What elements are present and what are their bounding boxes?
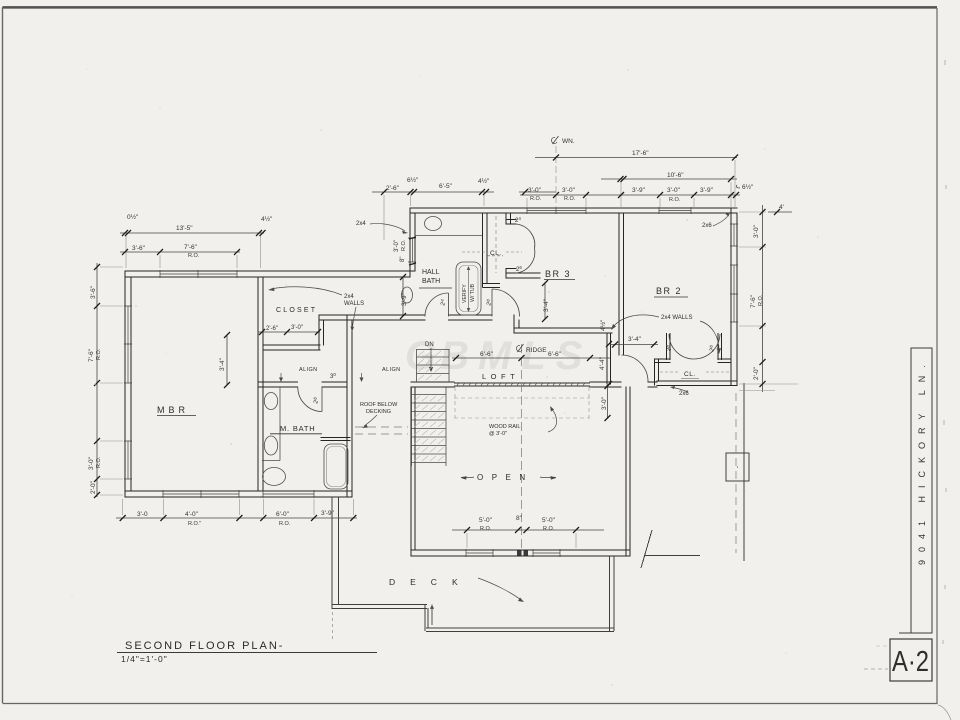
svg-text:R.O.: R.O. <box>279 521 291 527</box>
svg-text:4½": 4½" <box>478 177 490 185</box>
svg-text:3'-4": 3'-4" <box>628 336 642 343</box>
svg-text:ROOF BELOW: ROOF BELOW <box>360 402 398 408</box>
svg-text:9041 HICKORY LN.: 9041 HICKORY LN. <box>917 357 927 565</box>
svg-text:R.O.: R.O. <box>669 197 681 203</box>
svg-text:R.O.: R.O. <box>401 239 407 251</box>
svg-text:R.O.: R.O. <box>188 253 200 259</box>
svg-text:5'-0": 5'-0" <box>542 517 556 524</box>
svg-text:VERIFY: VERIFY <box>462 284 468 303</box>
svg-text:3'-0": 3'-0" <box>667 187 681 194</box>
svg-text:26: 26 <box>484 298 494 307</box>
svg-text:CL.: CL. <box>684 371 696 378</box>
svg-text:R.O.: R.O. <box>758 294 764 306</box>
svg-text:R.O.: R.O. <box>543 526 555 532</box>
svg-text:8": 8" <box>400 257 406 262</box>
svg-text:2'-6": 2'-6" <box>386 185 400 192</box>
svg-text:10'-6": 10'-6" <box>667 172 684 179</box>
svg-text:13'-5": 13'-5" <box>176 225 193 232</box>
svg-text:6'-0": 6'-0" <box>276 511 290 518</box>
svg-text:7'-6": 7'-6" <box>750 294 757 308</box>
svg-text:ALIGN: ALIGN <box>299 367 318 373</box>
svg-text:7'-6": 7'-6" <box>184 244 198 251</box>
svg-text:24: 24 <box>438 298 448 307</box>
svg-text:3'-0": 3'-0" <box>291 325 303 331</box>
svg-text:6'-6": 6'-6" <box>548 351 562 358</box>
svg-text:6'-6": 6'-6" <box>480 351 494 358</box>
svg-text:24: 24 <box>515 216 521 224</box>
svg-text:BR 3: BR 3 <box>545 269 571 279</box>
svg-text:5'-0": 5'-0" <box>479 517 493 524</box>
svg-text:ALIGN: ALIGN <box>382 367 401 373</box>
svg-text:26: 26 <box>311 396 321 405</box>
svg-text:WOOD RAIL: WOOD RAIL <box>489 424 520 430</box>
svg-text:3'-9": 3'-9" <box>632 187 646 194</box>
svg-text:R.O.: R.O. <box>96 348 102 360</box>
svg-text:BATH: BATH <box>422 278 440 285</box>
svg-text:OPEN: OPEN <box>477 473 534 482</box>
svg-text:30: 30 <box>330 372 336 380</box>
svg-text:R.O.: R.O. <box>530 196 542 202</box>
svg-text:WALLS: WALLS <box>344 301 364 307</box>
svg-text:R.O.: R.O. <box>480 526 492 532</box>
svg-text:3'-9": 3'-9" <box>700 187 714 194</box>
svg-text:4': 4' <box>779 204 784 211</box>
svg-text:@ 3'-0": @ 3'-0" <box>489 431 507 437</box>
svg-text:2x4: 2x4 <box>356 221 366 227</box>
svg-text:4'-4": 4'-4" <box>599 356 606 370</box>
svg-text:3'-0": 3'-0" <box>88 456 95 470</box>
svg-text:2'-6": 2'-6" <box>266 326 278 332</box>
svg-text:GB: GB <box>405 334 473 378</box>
svg-text:HALL: HALL <box>422 269 440 276</box>
svg-text:1/4"=1'-0": 1/4"=1'-0" <box>121 654 168 664</box>
svg-text:3'-0: 3'-0 <box>137 511 148 518</box>
svg-text:BR 2: BR 2 <box>656 286 682 296</box>
svg-text:4½": 4½" <box>261 215 273 223</box>
svg-text:3'-0": 3'-0" <box>601 396 608 410</box>
svg-text:4'-0": 4'-0" <box>185 511 199 518</box>
svg-text:3'-0": 3'-0" <box>562 187 576 194</box>
svg-text:0½": 0½" <box>127 213 139 221</box>
svg-text:6½": 6½" <box>407 176 419 184</box>
svg-text:W/ TUB: W/ TUB <box>470 283 476 302</box>
svg-text:2'-0": 2'-0" <box>753 366 760 380</box>
svg-text:3'-0": 3'-0" <box>753 224 760 238</box>
svg-text:DECK: DECK <box>389 577 473 587</box>
svg-text:3'-6": 3'-6" <box>90 285 97 299</box>
svg-text:3'-4": 3'-4" <box>543 298 550 312</box>
svg-text:26: 26 <box>664 344 674 353</box>
svg-text:6'-5": 6'-5" <box>439 183 453 190</box>
svg-text:2'-0": 2'-0" <box>90 480 97 494</box>
svg-text:8": 8" <box>516 515 523 522</box>
svg-text:R.O.": R.O." <box>188 521 201 527</box>
svg-text:26: 26 <box>707 344 717 353</box>
svg-text:3'-9": 3'-9" <box>401 292 408 306</box>
svg-text:4½": 4½" <box>599 319 607 331</box>
svg-text:SECOND FLOOR PLAN-: SECOND FLOOR PLAN- <box>125 640 284 652</box>
svg-text:R.O.: R.O. <box>564 196 576 202</box>
svg-text:2x4: 2x4 <box>344 294 354 300</box>
svg-text:DECKING: DECKING <box>366 409 391 415</box>
svg-text:2x4 WALLS: 2x4 WALLS <box>661 315 692 321</box>
svg-text:17'-6": 17'-6" <box>632 150 649 157</box>
svg-text:7'-6": 7'-6" <box>88 348 95 362</box>
svg-text:2x6: 2x6 <box>702 223 712 229</box>
svg-text:RIDGE: RIDGE <box>526 347 547 354</box>
svg-text:MBR: MBR <box>157 405 189 415</box>
svg-text:6½": 6½" <box>742 183 754 191</box>
svg-text:3'-4": 3'-4" <box>219 357 226 371</box>
svg-text:CLOSET: CLOSET <box>276 307 317 314</box>
svg-text:DN: DN <box>425 342 434 348</box>
svg-text:R.O.: R.O. <box>96 456 102 468</box>
svg-text:WN.: WN. <box>562 138 575 145</box>
svg-text:3'-9": 3'-9" <box>321 510 335 517</box>
svg-text:LOFT: LOFT <box>482 372 519 381</box>
svg-text:A·2: A·2 <box>892 645 929 678</box>
svg-text:M. BATH: M. BATH <box>280 424 315 433</box>
svg-text:3'-0": 3'-0" <box>394 240 400 252</box>
svg-text:3'-0": 3'-0" <box>528 187 542 194</box>
svg-text:3'-6": 3'-6" <box>132 245 146 252</box>
